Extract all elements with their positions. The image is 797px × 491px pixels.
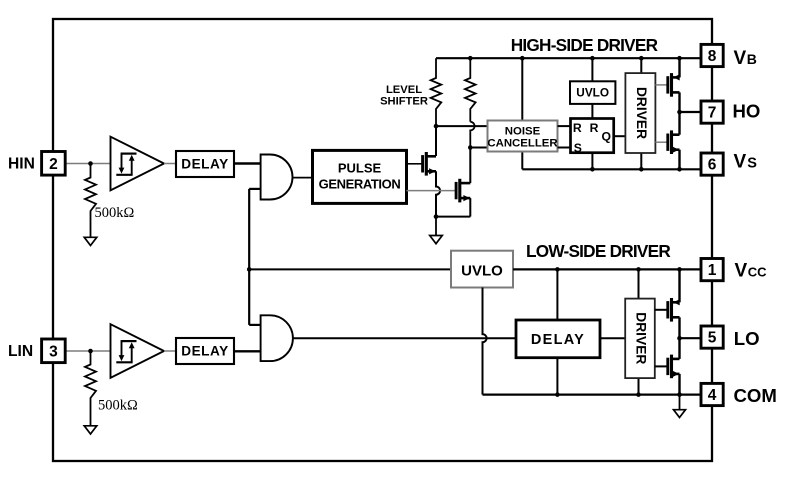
wire LIN input to buffer bbox=[65, 350, 110, 352]
svg-text:V: V bbox=[734, 48, 747, 69]
wire latch bottom to Vs rail bbox=[591, 153, 593, 170]
svg-text:R: R bbox=[590, 121, 599, 135]
resistor 500k pulldown (LIN) bbox=[85, 351, 96, 426]
resistor level-shifter right (with hop over R line) bbox=[465, 58, 476, 122]
svg-text:DELAY: DELAY bbox=[181, 343, 229, 358]
ground (COM) bbox=[674, 410, 686, 418]
node HO junction bbox=[677, 110, 682, 115]
node HIN junction bbox=[88, 161, 93, 166]
wire noise canceller supply from VB rail bbox=[521, 58, 523, 120]
wire pulse gen top output to M1 gate bbox=[407, 163, 423, 165]
svg-text:LEVEL: LEVEL bbox=[386, 84, 422, 96]
svg-text:LO: LO bbox=[734, 328, 760, 349]
node LIN junction bbox=[88, 349, 93, 354]
svg-text:SHIFTER: SHIFTER bbox=[380, 95, 428, 107]
wire noise canceller to Vs rail bbox=[521, 152, 523, 169]
svg-text:HO: HO bbox=[733, 100, 761, 121]
wire M2 drain vertical bbox=[469, 148, 471, 184]
pin 3 box bbox=[42, 339, 66, 363]
wire LS low FET source to COM bbox=[678, 374, 680, 395]
svg-text:HIN: HIN bbox=[8, 155, 35, 172]
wire output low FET source to Vs bbox=[678, 150, 680, 170]
block DELAY (low side) bbox=[516, 320, 600, 358]
node VB rail junctions bbox=[468, 56, 473, 61]
wire LO to pin 5 bbox=[680, 337, 702, 339]
node LO junction bbox=[677, 336, 682, 341]
svg-text:500kΩ: 500kΩ bbox=[95, 205, 135, 221]
node ground stem junction bbox=[434, 214, 439, 219]
pin 5 box bbox=[701, 326, 723, 348]
wire HO to pin 7 bbox=[680, 111, 702, 113]
block DELAY (low side input) bbox=[176, 338, 234, 364]
resistor 500k pulldown (HIN) bbox=[85, 164, 96, 238]
svg-text:UVLO: UVLO bbox=[461, 262, 503, 279]
wire hop on right resistor leg bbox=[470, 122, 474, 148]
transistor output high-side P-FET bbox=[668, 73, 680, 97]
wire pulse gen bottom output to M2 gate (gray) bbox=[407, 190, 456, 192]
svg-text:Q: Q bbox=[602, 130, 611, 144]
svg-text:UVLO: UVLO bbox=[576, 85, 609, 99]
svg-text:1: 1 bbox=[708, 262, 717, 279]
wire COM ground stem bbox=[679, 395, 681, 410]
wire LS high FET drain to VCC bbox=[678, 269, 680, 302]
svg-text:CANCELLER: CANCELLER bbox=[487, 137, 557, 149]
svg-text:GENERATION: GENERATION bbox=[319, 177, 401, 192]
wire noise canceller R to latch bbox=[558, 125, 571, 127]
wire M1 source vertical with hop over gate line bbox=[436, 171, 440, 216]
wire level-shifter source rail bbox=[436, 216, 470, 218]
AND gate (low side) bbox=[261, 315, 293, 361]
resistor level-shifter left bbox=[431, 58, 442, 126]
wire driver to high FET gate (LS) bbox=[655, 309, 668, 311]
svg-text:DRIVER: DRIVER bbox=[634, 87, 649, 139]
svg-text:S: S bbox=[747, 156, 757, 172]
svg-text:B: B bbox=[747, 51, 757, 67]
node VCC rail junctions bbox=[555, 267, 560, 272]
wire output high FET drain to VB bbox=[678, 58, 680, 77]
wire driver to high FET gate (gray) bbox=[655, 84, 667, 86]
wire Vs rail (high side bottom) bbox=[522, 168, 701, 170]
wire output low FET drain to HO bbox=[678, 112, 680, 135]
wire M1 drain vertical bbox=[435, 126, 437, 156]
svg-text:NOISE: NOISE bbox=[505, 126, 541, 138]
svg-text:PULSE: PULSE bbox=[338, 161, 382, 176]
wire driver return to COM rail bbox=[638, 378, 640, 395]
svg-text:DRIVER: DRIVER bbox=[633, 312, 648, 364]
node UVLO enable junction bbox=[247, 267, 252, 272]
wire driver to low FET gate (LS) bbox=[655, 365, 668, 367]
pin 4 box bbox=[701, 383, 723, 405]
wire UVLO enable to AND gates bbox=[249, 268, 451, 270]
wire AND upper input stub (low side) bbox=[249, 324, 260, 326]
wire driver to low FET gate (gray) bbox=[655, 141, 667, 143]
svg-text:LIN: LIN bbox=[8, 343, 33, 360]
node level-shifter right drain junction bbox=[468, 145, 473, 150]
node COM rail junctions bbox=[555, 392, 560, 397]
svg-text:V: V bbox=[734, 152, 747, 173]
pin 6 box bbox=[701, 153, 723, 175]
block DELAY (high side input) bbox=[176, 151, 234, 177]
block UVLO (high side) bbox=[570, 81, 615, 104]
svg-text:LOW-SIDE DRIVER: LOW-SIDE DRIVER bbox=[526, 241, 671, 261]
wire VCC rail bbox=[513, 268, 701, 270]
node driver/Vs junction bbox=[639, 167, 644, 172]
svg-text:7: 7 bbox=[708, 105, 717, 122]
pin 7 box bbox=[701, 101, 723, 123]
wire UVLO enable vertical link bbox=[248, 189, 250, 325]
svg-text:3: 3 bbox=[49, 343, 58, 360]
block UVLO (low side) bbox=[451, 251, 513, 288]
pin 2 box bbox=[42, 152, 66, 176]
block DRIVER (high side) bbox=[625, 73, 655, 153]
block PULSE GENERATION bbox=[313, 150, 407, 203]
wire UVLO to latch R input bbox=[591, 104, 593, 119]
svg-text:COM: COM bbox=[734, 385, 777, 406]
wire AND output to low-side delay (passes UVLO stem hop) bbox=[292, 337, 516, 339]
svg-text:R: R bbox=[573, 121, 582, 135]
wire LS high FET source to LO bbox=[678, 317, 680, 338]
wire buffer to DELAY (HIN) bbox=[164, 163, 176, 165]
buffer U1 (HIN) Schmitt-trigger input buffer bbox=[111, 137, 165, 191]
node level-shifter left drain junction bbox=[434, 124, 439, 129]
latch RS flip-flop U2 bbox=[571, 119, 614, 153]
transistor output high-side P-FET (LS) bbox=[668, 298, 680, 322]
IC boundary box bbox=[53, 19, 712, 461]
svg-text:4: 4 bbox=[708, 387, 717, 404]
svg-text:8: 8 bbox=[708, 48, 717, 65]
node latch/Vs junction bbox=[590, 167, 595, 172]
buffer U3 (LIN) Schmitt-trigger input buffer bbox=[111, 324, 165, 378]
svg-text:V: V bbox=[735, 260, 748, 281]
svg-text:500kΩ: 500kΩ bbox=[98, 398, 138, 414]
wire UVLO top from VB rail bbox=[591, 58, 593, 81]
node FET source / Vs rail junction bbox=[677, 167, 682, 172]
AND gate (high side) bbox=[261, 155, 293, 200]
pin 8 box bbox=[701, 44, 723, 66]
transistor M1 level-shifter bbox=[423, 152, 436, 176]
wire LS low FET drain to LO bbox=[678, 338, 680, 359]
svg-text:DELAY: DELAY bbox=[531, 332, 585, 348]
wire VB rail (high side top) bbox=[436, 57, 701, 59]
transistor output low-side N-FET (LS) bbox=[668, 355, 680, 379]
svg-text:CC: CC bbox=[748, 264, 767, 279]
wire delay return to COM rail bbox=[556, 358, 558, 395]
wire driver return to Vs rail bbox=[640, 153, 642, 169]
ground (HIN pulldown) bbox=[84, 237, 97, 245]
wire driver supply from VB rail bbox=[640, 58, 642, 73]
svg-text:HIGH-SIDE DRIVER: HIGH-SIDE DRIVER bbox=[511, 35, 659, 55]
pin 1 box bbox=[701, 259, 723, 281]
wire S set line to noise canceller bbox=[470, 147, 487, 149]
transistor output low-side N-FET (HS) bbox=[668, 130, 680, 154]
svg-text:6: 6 bbox=[708, 157, 717, 174]
wire delay to driver (low side) bbox=[600, 337, 625, 339]
svg-text:2: 2 bbox=[49, 156, 58, 173]
ground (LIN pulldown) bbox=[84, 426, 97, 434]
wire noise canceller S to latch bbox=[558, 147, 571, 149]
wire driver supply from VCC rail bbox=[638, 269, 640, 298]
wire buffer to DELAY (LIN) bbox=[164, 350, 176, 352]
wire ground stem bbox=[435, 217, 437, 236]
wire UVLO ground stem with hop bbox=[483, 288, 487, 395]
wire latch Q to driver bbox=[614, 135, 626, 137]
wire delay supply from VCC rail bbox=[556, 269, 558, 320]
svg-text:DELAY: DELAY bbox=[181, 156, 229, 171]
svg-text:S: S bbox=[574, 141, 582, 155]
svg-text:5: 5 bbox=[708, 330, 717, 347]
block DRIVER (low side) bbox=[625, 299, 655, 379]
wire M2 source vertical bbox=[469, 198, 471, 217]
ground (level shifter) bbox=[430, 236, 443, 244]
wire DELAY to AND gate (HIN) bbox=[234, 162, 261, 164]
wire R set line to noise canceller bbox=[436, 125, 488, 127]
block NOISE CANCELLER bbox=[488, 121, 558, 152]
wire HIN input to buffer bbox=[65, 163, 110, 165]
transistor M2 level-shifter bbox=[456, 179, 470, 203]
wire AND lower input stub (high side) bbox=[249, 188, 260, 190]
wire DELAY to AND gate (LIN) bbox=[234, 350, 261, 352]
wire output high FET source to HO bbox=[678, 92, 680, 112]
wire COM rail bbox=[483, 394, 702, 396]
wire AND output to PULSE GENERATION bbox=[292, 177, 312, 179]
